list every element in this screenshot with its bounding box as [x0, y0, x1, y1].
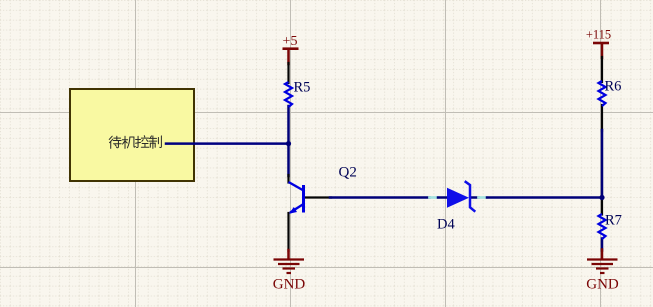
svg-text:+5: +5: [283, 34, 298, 49]
svg-text:+115: +115: [586, 28, 611, 42]
svg-text:GND: GND: [586, 277, 619, 293]
svg-text:GND: GND: [273, 277, 306, 293]
svg-text:R7: R7: [605, 213, 622, 229]
svg-text:Q2: Q2: [339, 165, 357, 181]
svg-text:D4: D4: [437, 217, 455, 233]
svg-text:R5: R5: [294, 80, 311, 96]
svg-text:R6: R6: [605, 79, 622, 95]
